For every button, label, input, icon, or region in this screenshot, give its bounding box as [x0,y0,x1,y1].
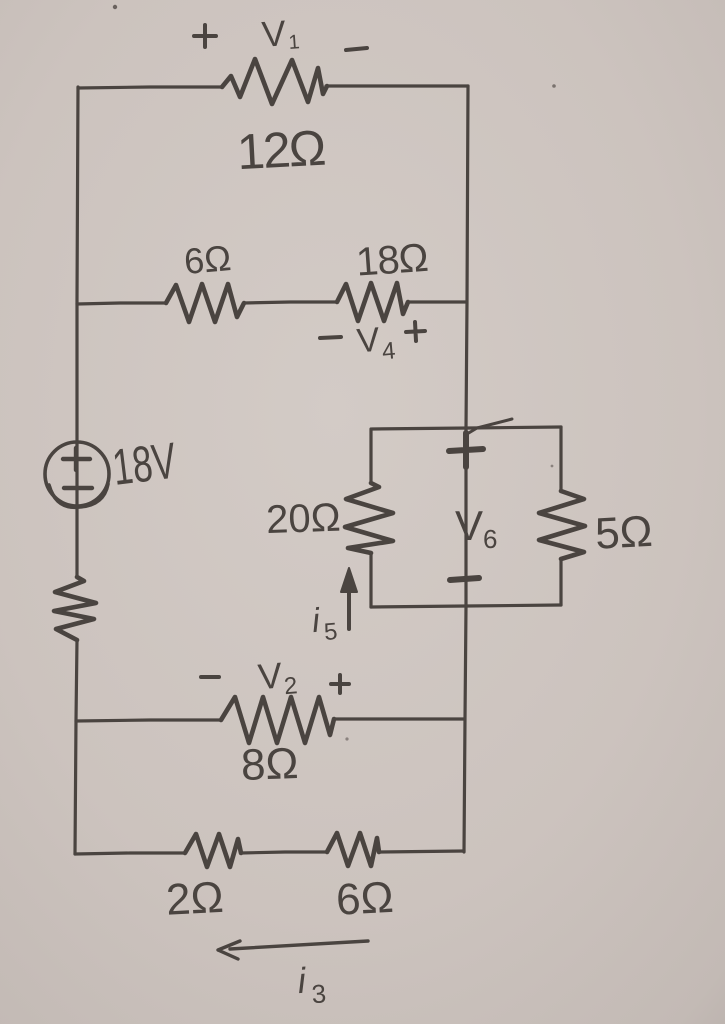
wire bottom right [379,851,464,852]
paper speck [551,465,554,468]
label V4 [355,319,396,367]
label V6 [455,502,497,554]
svg-text:3: 3 [311,978,328,1009]
label V1 plus sign [194,25,216,47]
wire top-right [326,84,468,87]
label V2 minus sign [201,675,219,679]
wire top-left [78,87,222,88]
resistor R8 (2 ohm) [185,834,241,867]
resistor R4 left vertical [54,577,96,640]
wire left rail bottom [75,640,77,854]
paper speck [345,737,348,740]
svg-text:2: 2 [283,672,299,700]
wire bottom middle [241,852,327,853]
inner box left edge upper [369,429,372,483]
wire row2 right [408,300,466,303]
svg-text:12Ω: 12Ω [236,120,326,181]
svg-text:20Ω: 20Ω [265,496,341,543]
resistor R7 (8 ohm, V2) [221,697,334,743]
svg-text:1: 1 [288,31,301,54]
voltage source minus sign [64,486,92,490]
label i5 [310,600,338,647]
svg-text:6Ω: 6Ω [335,873,395,925]
resistor R9 (6 ohm) [327,833,379,866]
svg-text:V: V [455,502,483,549]
paper speck [552,84,556,88]
current arrow i3 [218,941,368,959]
svg-text:6Ω: 6Ω [182,237,232,282]
label V1 [260,11,300,55]
paper speck [113,5,117,9]
voltage source VS 18V circle [45,442,109,506]
label V1 minus sign [346,48,367,50]
resistor R1 (V1, 12 ohm) [222,59,327,104]
wire right rail [464,86,468,852]
svg-text:4: 4 [381,337,397,365]
svg-text:18Ω: 18Ω [355,236,429,285]
svg-text:5Ω: 5Ω [594,507,654,559]
label V2 plus sign [331,675,349,693]
resistor R2 (6 ohm) [166,284,244,322]
wire bottom left [75,853,185,854]
svg-text:V: V [260,12,287,55]
inner box top edge [372,427,561,429]
wire left rail through source [75,445,78,577]
current arrow i5 [347,585,351,629]
svg-text:18V: 18V [109,432,179,496]
wire row2 middle [244,302,337,303]
voltage source sketch second stroke [49,484,108,507]
voltage source plus sign [63,448,90,470]
svg-text:5: 5 [323,618,339,646]
label i3 [296,958,327,1010]
label V2 [256,653,298,702]
svg-text:6: 6 [483,524,497,554]
wire row3 left [76,720,221,721]
label V4 minus sign [320,337,341,338]
tick mark at box top [467,419,512,434]
inner box right edge upper [559,427,562,491]
svg-text:8Ω: 8Ω [240,739,299,790]
label V4 plus sign [406,322,425,341]
svg-text:V: V [256,654,283,697]
wire left rail [77,87,78,445]
inner box bottom edge [371,605,561,607]
V6 minus sign [450,578,479,580]
wire row3 right [334,717,464,720]
svg-text:V: V [355,321,381,361]
resistor R6 (20 ohm) [345,483,393,553]
V6 plus sign [449,433,483,467]
resistor R5 (5 ohm) [539,491,585,559]
wire row2 left [77,303,166,304]
svg-text:2Ω: 2Ω [165,873,225,925]
inner box left edge lower [369,553,372,607]
inner box right edge lower [559,559,562,605]
resistor R3 (18 ohm) [337,283,408,321]
